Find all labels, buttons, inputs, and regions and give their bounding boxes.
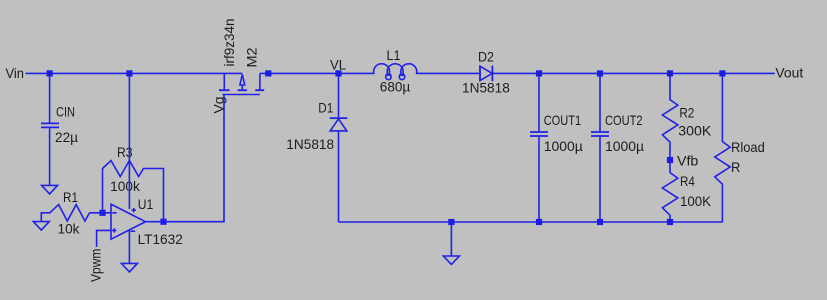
junction Vout rail / COUT2	[597, 70, 603, 76]
node junction (op-amp output)	[160, 219, 166, 225]
svg-text:1N5818: 1N5818	[462, 80, 510, 96]
svg-text:22µ: 22µ	[55, 129, 78, 145]
svg-text:Vg: Vg	[211, 97, 227, 114]
svg-text:Vin: Vin	[6, 65, 25, 81]
svg-text:1000µ: 1000µ	[605, 138, 644, 154]
junction Vout rail / R2	[667, 70, 673, 76]
svg-text:Vout: Vout	[775, 65, 803, 81]
wire top rail (D2 to Vout)	[492, 72, 774, 74]
resistor Rload	[715, 73, 730, 222]
svg-text:COUT2: COUT2	[605, 112, 643, 128]
capacitor COUT2	[591, 73, 609, 222]
svg-text:R1: R1	[63, 189, 78, 205]
svg-text:100k: 100k	[110, 178, 141, 194]
junction bottom rail / COUT1	[536, 219, 542, 225]
svg-text:10k: 10k	[58, 221, 81, 237]
svg-text:R3: R3	[117, 144, 133, 160]
svg-text:Vpwm: Vpwm	[87, 249, 103, 282]
op-amp power plus mark	[132, 208, 136, 212]
svg-text:VL: VL	[330, 57, 346, 73]
svg-text:D2: D2	[478, 49, 494, 65]
ground (CIN)	[42, 185, 58, 194]
junction Vout rail / Rload	[719, 70, 725, 76]
node junction Vfb	[667, 157, 673, 163]
junction M2 drain	[265, 70, 271, 76]
resistor R4	[662, 160, 677, 222]
svg-text:COUT1: COUT1	[544, 112, 582, 128]
resistor R2	[662, 73, 677, 160]
svg-text:680µ: 680µ	[380, 79, 410, 95]
inductor L1	[374, 64, 417, 80]
svg-text:D1: D1	[318, 100, 333, 116]
svg-text:Rload: Rload	[731, 139, 765, 155]
junction Vin rail / op-amp V+	[126, 70, 132, 76]
svg-text:LT1632: LT1632	[138, 231, 183, 247]
svg-text:CIN: CIN	[56, 104, 75, 120]
capacitor CIN	[41, 73, 59, 185]
wire R1 to op-amp minus input	[90, 212, 112, 214]
wire top rail (inductor to D2)	[417, 72, 481, 74]
svg-text:100K: 100K	[680, 193, 712, 209]
wire op-amp V+ pin to Vin rail	[128, 73, 130, 209]
wire top rail (MOSFET drain to inductor)	[260, 72, 374, 74]
wire op-amp output to gate	[146, 95, 225, 222]
svg-text:M2: M2	[243, 47, 259, 67]
svg-text:Vfb: Vfb	[677, 153, 699, 169]
svg-text:L1: L1	[387, 47, 401, 63]
svg-text:R: R	[731, 159, 740, 175]
wire op-amp V- pin to ground	[128, 230, 130, 264]
op-amp U1 triangle	[111, 204, 146, 239]
wire top rail left (Vin to MOSFET source)	[26, 72, 243, 74]
svg-text:R4: R4	[680, 173, 695, 189]
svg-text:U1: U1	[138, 196, 154, 212]
ground (R1 left)	[33, 222, 49, 231]
op-amp input plus mark	[112, 228, 116, 232]
junction Vin rail / CIN	[47, 70, 53, 76]
node junction (ground tap)	[448, 219, 454, 225]
resistor R1	[41, 205, 89, 222]
junction bottom rail / COUT2	[597, 219, 603, 225]
diode D1 (to ground, cathode up)	[330, 73, 348, 222]
svg-text:1000µ: 1000µ	[544, 138, 583, 154]
junction Vout rail / COUT1	[536, 70, 542, 76]
transistor M2 (PMOS irf9z34n)	[219, 73, 264, 94]
resistor R3 feedback	[103, 161, 164, 222]
svg-text:300K: 300K	[678, 123, 712, 139]
ground (main)	[443, 256, 459, 265]
wire plus input to Vpwm port	[97, 230, 111, 247]
wire ground stem	[450, 222, 452, 256]
ground (op-amp)	[121, 263, 137, 272]
svg-text:1N5818: 1N5818	[286, 136, 334, 152]
svg-text:irf9z34n: irf9z34n	[221, 19, 237, 67]
capacitor COUT1	[530, 73, 548, 222]
op-amp power minus mark	[131, 230, 136, 232]
wire bottom rail	[339, 221, 723, 223]
junction node VL	[335, 70, 341, 76]
svg-text:R2: R2	[679, 104, 694, 120]
diode D2 (series, cathode right)	[480, 66, 492, 82]
node junction (minus input)	[99, 210, 105, 216]
junction bottom rail / R4	[667, 219, 673, 225]
op-amp input minus mark	[112, 212, 116, 214]
